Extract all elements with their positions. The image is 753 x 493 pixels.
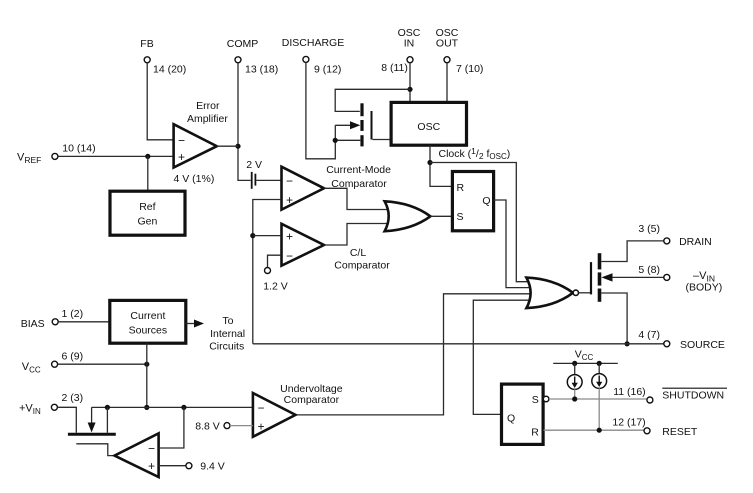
op-amp U5 undervoltage comparator bbox=[253, 393, 296, 437]
svg-text:Comparator: Comparator bbox=[334, 259, 390, 271]
svg-text:DISCHARGE: DISCHARGE bbox=[282, 37, 344, 49]
svg-text:+: + bbox=[286, 230, 293, 244]
node CS plus junction bbox=[250, 233, 255, 238]
svg-text:7 (10): 7 (10) bbox=[456, 63, 483, 75]
pin DISCHARGE bbox=[282, 37, 344, 76]
node S line junction bbox=[572, 396, 577, 401]
wire U4 minus to rail bbox=[159, 407, 184, 448]
wire COMP vertical bbox=[238, 63, 251, 181]
op-amp U4 gate driver (points left) bbox=[115, 433, 159, 477]
svg-text:2 (3): 2 (3) bbox=[62, 392, 84, 404]
wire VCC to junction bbox=[58, 363, 147, 365]
svg-text:Current-Mode: Current-Mode bbox=[326, 164, 391, 176]
svg-text:S: S bbox=[532, 394, 539, 406]
wire Q3 gate bbox=[76, 444, 114, 456]
wire SR latch Q to NOR bbox=[473, 300, 533, 414]
op-amp U1 error amplifier bbox=[174, 124, 217, 167]
block SR latch bbox=[502, 384, 544, 444]
svg-text:OSC: OSC bbox=[417, 121, 440, 133]
svg-text:COMP: COMP bbox=[227, 38, 259, 50]
block RS flip-flop bbox=[452, 172, 493, 231]
wire current sources output arrow bbox=[186, 323, 196, 325]
wire R line to RESET bbox=[544, 429, 645, 431]
svg-text:SHUTDOWN: SHUTDOWN bbox=[662, 390, 724, 402]
terminal 9.4 V bbox=[186, 463, 192, 469]
node COMP / error amp output junction bbox=[235, 144, 240, 149]
svg-text:−: − bbox=[258, 401, 265, 415]
wire OR1 output to S bbox=[430, 215, 452, 217]
wire VIN rail bbox=[92, 406, 253, 408]
node VREF / ref gen junction bbox=[145, 154, 150, 159]
svg-text:8 (11): 8 (11) bbox=[381, 62, 408, 74]
pin SOURCE bbox=[638, 329, 725, 351]
svg-text:Sources: Sources bbox=[129, 325, 168, 337]
svg-text:+: + bbox=[178, 150, 185, 164]
wire Q1 body arrow bbox=[335, 124, 352, 126]
wire FB to error amp minus bbox=[147, 63, 172, 140]
wire VREF to error amp plus bbox=[58, 155, 173, 157]
svg-text:R: R bbox=[531, 426, 539, 438]
wire C/L minus to 1.2V bbox=[268, 255, 282, 267]
gate OR1 set gate bbox=[385, 201, 431, 231]
svg-text:BIAS: BIAS bbox=[21, 318, 45, 330]
pin +VIN bbox=[19, 392, 83, 416]
pin VCC left bbox=[22, 351, 83, 375]
svg-text:−: − bbox=[148, 442, 155, 456]
current source I1 bbox=[567, 363, 582, 399]
svg-text:(BODY): (BODY) bbox=[686, 281, 723, 293]
pin COMP bbox=[227, 38, 279, 76]
wire Q1 source bbox=[335, 139, 360, 141]
svg-text:S: S bbox=[457, 211, 464, 223]
node OSC IN junction bbox=[407, 87, 412, 92]
pin FB bbox=[140, 38, 186, 76]
wire SOURCE line bbox=[253, 343, 664, 345]
svg-text:14 (20): 14 (20) bbox=[153, 64, 186, 76]
node clock junction bbox=[427, 160, 432, 165]
wire current-mode comparator plus bbox=[253, 200, 281, 344]
svg-text:Circuits: Circuits bbox=[209, 340, 244, 352]
wire Q2 body to -VIN pin bbox=[610, 276, 664, 278]
node Q1 source junction bbox=[333, 138, 338, 143]
gate NOR1 driver gate bbox=[526, 278, 573, 309]
svg-text:8.8 V: 8.8 V bbox=[195, 420, 220, 432]
svg-text:Internal: Internal bbox=[210, 328, 245, 340]
svg-text:R: R bbox=[457, 182, 465, 194]
pin -VIN BODY bbox=[638, 264, 722, 294]
wire rail to plate right bbox=[106, 407, 108, 432]
current source I2 bbox=[592, 363, 607, 430]
wire C/L plus input bbox=[253, 235, 281, 237]
wire error amp output bbox=[217, 145, 238, 147]
op-amp U2 current-mode comparator bbox=[282, 167, 325, 210]
svg-text:Q: Q bbox=[507, 412, 515, 424]
wire 8.8V to plus input bbox=[230, 425, 253, 427]
svg-text:4 V (1%): 4 V (1%) bbox=[174, 173, 215, 185]
wire VCC rail bbox=[553, 362, 618, 364]
wire OSC IN to OSC box bbox=[409, 63, 411, 103]
pin BIAS bbox=[21, 308, 83, 330]
svg-text:C/L: C/L bbox=[350, 247, 367, 259]
svg-text:13 (18): 13 (18) bbox=[245, 64, 278, 76]
wire C/L output to OR bbox=[324, 224, 392, 246]
node VCC rail junctions bbox=[572, 361, 577, 366]
svg-text:1 (2): 1 (2) bbox=[62, 308, 84, 320]
svg-text:1.2 V: 1.2 V bbox=[263, 281, 288, 293]
block Current Sources bbox=[110, 300, 186, 343]
svg-text:Ref: Ref bbox=[139, 201, 155, 213]
svg-text:OUT: OUT bbox=[436, 38, 459, 50]
wire OSC OUT to OSC box bbox=[446, 63, 448, 103]
wire cap to current-mode comparator minus bbox=[256, 179, 281, 181]
node rail dots bbox=[105, 405, 110, 410]
pin VREF bbox=[52, 153, 58, 159]
svg-text:11 (16): 11 (16) bbox=[613, 386, 646, 398]
svg-text:9 (12): 9 (12) bbox=[314, 64, 341, 76]
svg-text:−: − bbox=[286, 174, 293, 188]
pin OSC IN bbox=[381, 27, 421, 74]
wire current sources down bbox=[146, 343, 148, 407]
wire clock to NOR gate bbox=[430, 163, 534, 282]
svg-text:Gen: Gen bbox=[137, 215, 157, 227]
pin RESET bbox=[612, 417, 697, 438]
svg-text:DRAIN: DRAIN bbox=[679, 236, 712, 248]
wire OSC IN junction to Q1 drain bbox=[335, 89, 410, 111]
svg-text:To: To bbox=[222, 315, 233, 327]
svg-text:Comparator: Comparator bbox=[284, 394, 340, 406]
wire RS Q output to NOR bbox=[494, 200, 533, 288]
block OSC oscillator bbox=[391, 102, 466, 145]
node VCC junction bbox=[144, 362, 149, 367]
svg-text:−: − bbox=[286, 249, 293, 263]
wire Q2 source down bbox=[601, 293, 627, 344]
pin OSC OUT bbox=[436, 27, 484, 75]
svg-text:3 (5): 3 (5) bbox=[638, 223, 660, 235]
node rail junction bbox=[144, 405, 149, 410]
wire DISCHARGE to Q1 source bbox=[306, 62, 335, 158]
terminal 1.2 V bbox=[265, 268, 271, 274]
wire OSC clock output bbox=[430, 145, 452, 186]
svg-text:Amplifier: Amplifier bbox=[187, 113, 228, 125]
op-amp U3 C/L comparator bbox=[282, 224, 325, 266]
wire Q2 drain to DRAIN pin bbox=[601, 241, 664, 262]
bubble S input bbox=[543, 396, 549, 402]
wire Q1 gate to OSC bbox=[373, 139, 392, 141]
svg-text:FB: FB bbox=[140, 38, 153, 50]
wire Q3 arrow from rail bbox=[91, 407, 93, 425]
pin DRAIN bbox=[638, 223, 711, 248]
svg-text:6 (9): 6 (9) bbox=[62, 351, 84, 363]
wire NOR output to gate bbox=[579, 292, 591, 294]
wire +VIN down to pass FET bbox=[57, 407, 76, 433]
wire ref gen connection bbox=[147, 156, 149, 191]
wire U4 plus to 9.4V bbox=[159, 465, 186, 467]
svg-text:IN: IN bbox=[404, 38, 415, 50]
svg-text:+: + bbox=[148, 459, 155, 473]
pin SHUTDOWN bbox=[613, 386, 727, 403]
svg-text:10 (14): 10 (14) bbox=[62, 143, 95, 155]
svg-text:Current: Current bbox=[130, 310, 165, 322]
wire undervoltage output to NOR bbox=[296, 294, 534, 415]
svg-text:12 (17): 12 (17) bbox=[612, 417, 645, 429]
wire current-mode comparator output to OR bbox=[324, 188, 392, 209]
transistor Q1 discharge MOSFET bbox=[362, 103, 372, 146]
capacitor 2V offset bbox=[246, 159, 262, 189]
svg-text:5 (8): 5 (8) bbox=[638, 264, 660, 276]
svg-text:SOURCE: SOURCE bbox=[680, 339, 725, 351]
svg-text:9.4 V: 9.4 V bbox=[200, 461, 225, 473]
transistor Q3 pass FET plate bbox=[68, 433, 116, 436]
svg-text:+: + bbox=[258, 420, 265, 434]
svg-text:+: + bbox=[286, 193, 293, 207]
wire BIAS to current sources bbox=[58, 321, 110, 323]
svg-text:−: − bbox=[178, 134, 185, 148]
wire S line to SHUTDOWN bbox=[549, 398, 647, 400]
node source junction bbox=[625, 341, 630, 346]
node R line junction bbox=[597, 428, 602, 433]
svg-text:2 V: 2 V bbox=[246, 159, 262, 171]
block Ref Gen bbox=[110, 191, 185, 235]
svg-text:RESET: RESET bbox=[662, 426, 698, 438]
svg-text:Error: Error bbox=[196, 100, 220, 112]
svg-text:4 (7): 4 (7) bbox=[638, 329, 660, 341]
transistor Q2 output MOSFET bbox=[591, 253, 600, 302]
svg-text:Q: Q bbox=[482, 195, 490, 207]
